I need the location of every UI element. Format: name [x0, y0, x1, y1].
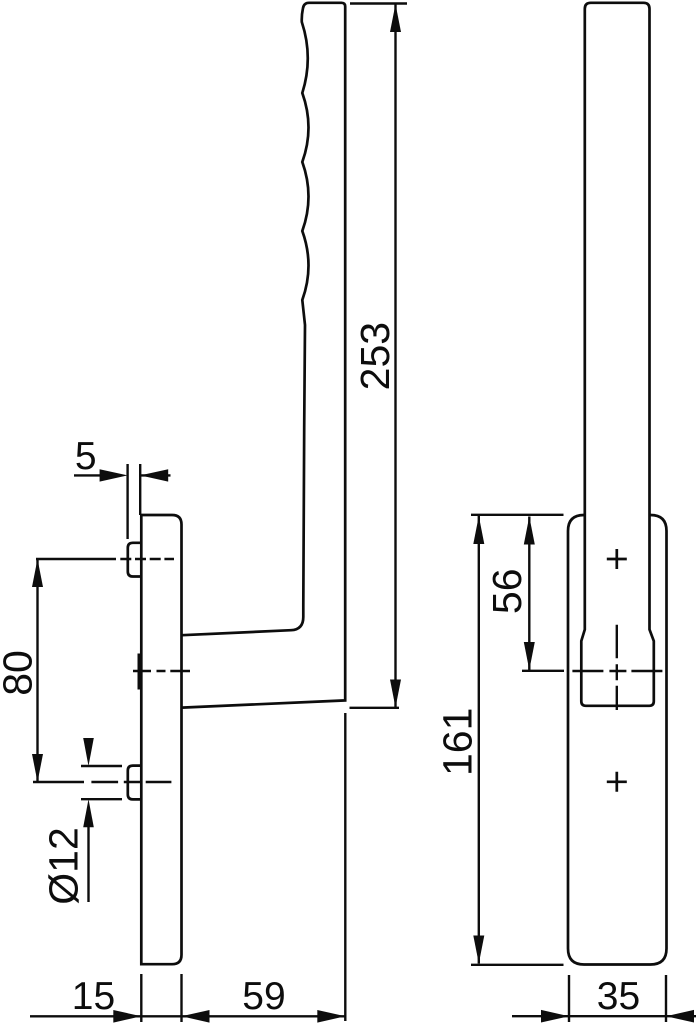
arrow dim253 up	[390, 4, 401, 32]
spindle centerline horizontal, front view	[572, 670, 662, 672]
arrow dim35 left-pointing	[666, 1010, 694, 1023]
backplate, front view (right)	[568, 515, 667, 965]
dim dia12 dimension line	[87, 827, 89, 902]
arrow dim5 left	[100, 469, 128, 481]
dim dia12 extension ticks	[81, 765, 122, 767]
dim 80 dimension line	[36, 559, 38, 782]
svg-text:161: 161	[435, 708, 481, 776]
bottom dims 15/59 extension lines	[140, 974, 142, 1022]
svg-text:253: 253	[352, 322, 398, 390]
dim 161 bottom extension line	[471, 964, 564, 966]
svg-text:35: 35	[597, 975, 640, 1018]
cross mark upper screw, front view	[607, 549, 627, 569]
centerline spindle, side view	[133, 670, 191, 672]
dim 56 bottom extension line	[522, 670, 564, 672]
arrow dim59 left-pointing	[182, 1010, 210, 1023]
centerline lower screw	[33, 781, 84, 783]
arrow dim161 down	[473, 936, 484, 964]
bottom dim 35 extension lines	[568, 975, 570, 1022]
svg-text:59: 59	[242, 975, 285, 1018]
bottom dims 15/59 dimension line	[30, 1015, 345, 1017]
handle grip and arm, side view (left)	[182, 3, 345, 708]
svg-text:56: 56	[484, 568, 530, 614]
dim 5 extension lines	[126, 464, 128, 539]
backplate, side view (left)	[141, 515, 181, 964]
dim 161/56 top extension line	[471, 514, 564, 516]
handle bar, front view (right)	[581, 3, 654, 706]
arrow dim80 up	[32, 559, 43, 587]
bottom dim 35 dimension line	[512, 1015, 696, 1017]
arrow dim59 right-pointing	[317, 1010, 345, 1023]
svg-text:5: 5	[75, 435, 97, 478]
centerline upper screw	[36, 558, 116, 560]
svg-text:80: 80	[0, 650, 41, 696]
dim 253 dimension line	[394, 4, 396, 708]
arrow dia12 down	[83, 738, 94, 766]
arrow dim80 down	[32, 754, 43, 782]
svg-text:Ø12: Ø12	[41, 827, 87, 905]
arrow dim15 right-pointing	[113, 1010, 141, 1023]
arrow dim56 down	[524, 642, 535, 670]
spindle centerline vertical, front view	[616, 625, 618, 710]
dim 5 dimension line	[74, 474, 101, 476]
arrow dim56 up	[524, 517, 535, 545]
arrow dim161 up	[473, 516, 484, 544]
dim 56 dimension line	[528, 517, 530, 671]
cross mark lower screw, front view	[607, 772, 627, 792]
dim 161 dimension line	[478, 516, 480, 964]
spindle hole edge mark on plate left face	[138, 654, 143, 690]
arrow dim35 right-pointing	[541, 1010, 569, 1023]
arrow dim5 right	[140, 469, 168, 481]
arrow dim253 down	[390, 680, 401, 708]
arrow dia12 up	[83, 799, 94, 827]
dim 253 extension lines	[350, 2, 407, 4]
screw head S2 (lower)	[128, 766, 142, 800]
svg-text:15: 15	[72, 975, 115, 1018]
screw head S1 (upper)	[128, 543, 142, 577]
